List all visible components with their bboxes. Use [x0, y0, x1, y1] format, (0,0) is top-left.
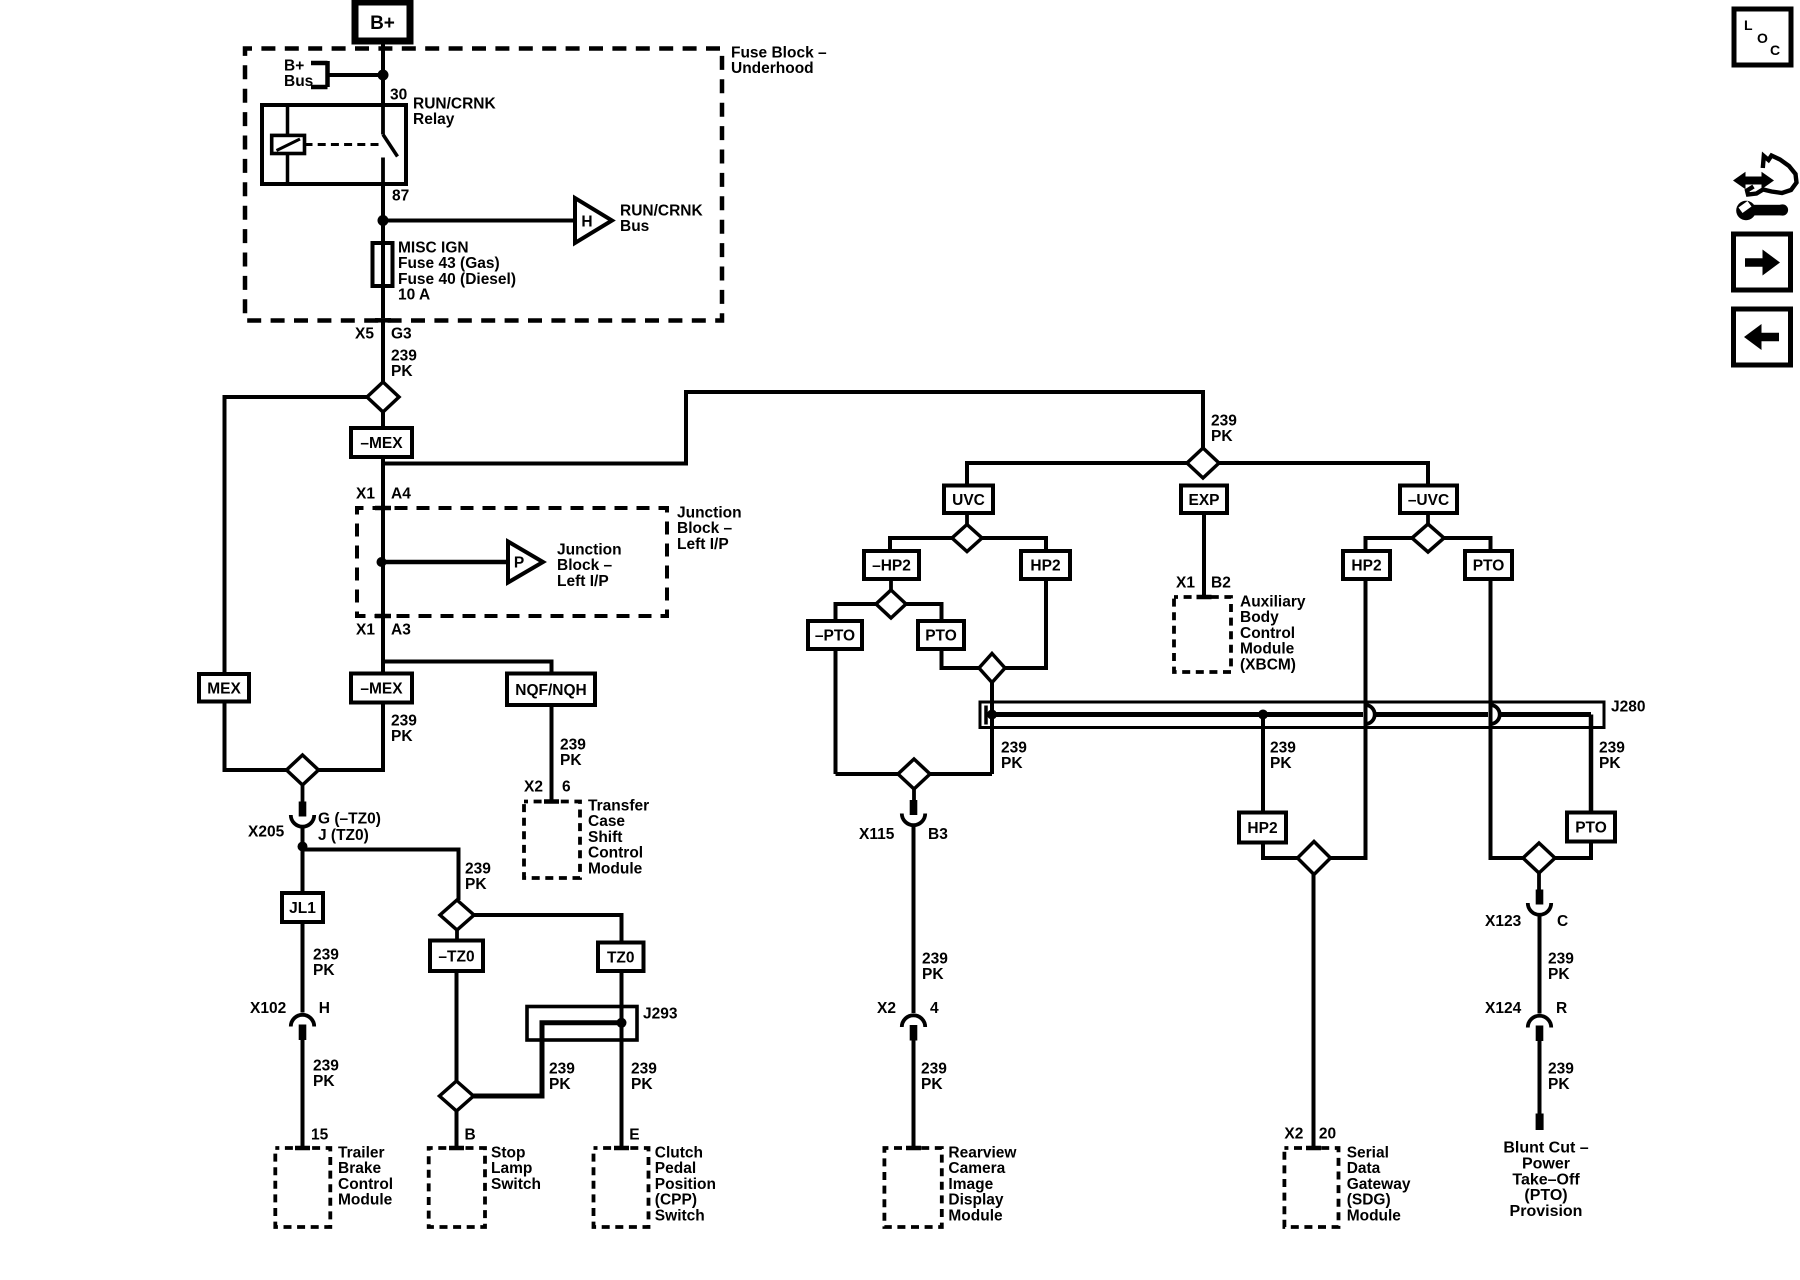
icon back arrow box	[1734, 309, 1791, 365]
wire UVC down	[965, 513, 969, 524]
net label -MEX (upper)	[351, 428, 412, 457]
splice diamond S7	[876, 590, 906, 618]
wire X205 to JL1	[301, 828, 305, 893]
inline connector X124	[1528, 1016, 1551, 1041]
wire -PTO down	[834, 649, 838, 774]
splice diamond S8	[979, 654, 1005, 683]
wire S3 right to TZ0	[474, 915, 622, 943]
net label NQF/NQH	[507, 674, 595, 706]
wire branch to NQF/NQH	[385, 662, 552, 674]
B+ Bus stub bracket	[311, 61, 328, 87]
splice diamond S9	[898, 759, 930, 789]
svg-text:C: C	[1770, 42, 1780, 58]
module Rearview Camera dashed box	[884, 1148, 941, 1227]
pin tick XBCM	[1197, 595, 1212, 600]
svg-text:30: 30	[390, 86, 407, 103]
svg-text:6: 6	[562, 778, 571, 795]
wire -MEX down through junction block	[381, 457, 385, 674]
inline connector X123	[1528, 890, 1551, 915]
junction pin 87 bus tap	[378, 215, 389, 226]
wire S10 right to PTO	[1444, 538, 1491, 551]
svg-text:R: R	[1556, 1000, 1567, 1017]
wire S5 right to -UVC	[1219, 463, 1428, 486]
svg-text:X102: X102	[250, 1000, 286, 1017]
svg-text:X2: X2	[1284, 1125, 1303, 1142]
net label -HP2	[864, 551, 919, 579]
pin tick trailer brake	[295, 1146, 310, 1151]
wire X2-4 to rearview module	[912, 1041, 916, 1147]
splice diamond S1	[367, 382, 399, 412]
wire HP2 lower to splice	[1263, 843, 1297, 859]
net label HP2 (mid)	[1021, 551, 1070, 579]
blunt cut end	[1536, 1114, 1544, 1131]
wire pin 87 to fuse	[381, 184, 385, 243]
connector X1 pin A3 tick	[375, 614, 391, 619]
bus tap triangle P	[508, 542, 543, 583]
fuse block underhood dashed box	[245, 49, 722, 321]
junction J280 HP2 tap	[1258, 710, 1268, 720]
wire HP2 down to splice	[1004, 579, 1046, 668]
pin tick SDG module	[1306, 1146, 1321, 1151]
svg-text:J280: J280	[1611, 698, 1645, 715]
svg-text:X1: X1	[356, 621, 375, 638]
bus bar J233	[474, 1023, 622, 1096]
wire X5-G3 to splice diamond	[381, 322, 385, 382]
svg-text:X123: X123	[1485, 913, 1522, 930]
wire -UVC down	[1426, 513, 1430, 524]
wire MEX down to diamond	[225, 702, 287, 771]
bus tap triangle H	[575, 198, 612, 243]
module CPP Switch dashed box	[594, 1148, 649, 1227]
splice diamond S5	[1187, 448, 1219, 478]
svg-text:–PTO: –PTO	[815, 628, 855, 645]
module SDG dashed box	[1284, 1148, 1338, 1227]
wire S4 to stop lamp switch	[455, 1111, 459, 1146]
svg-text:JL1: JL1	[289, 900, 316, 917]
pin tick stop lamp	[449, 1146, 464, 1151]
connector X5 crossing tick	[375, 318, 391, 323]
J280 bus bar left cap	[984, 706, 988, 725]
svg-text:–MEX: –MEX	[360, 681, 403, 698]
net label -MEX (lower)	[351, 674, 412, 703]
splice diamond S11	[1298, 842, 1331, 875]
splice diamond S12	[1523, 843, 1555, 873]
wire PTO down to splice	[942, 649, 981, 668]
net label EXP	[1181, 486, 1227, 514]
inline connector X2-4	[902, 1015, 925, 1040]
svg-text:L: L	[1744, 17, 1753, 33]
junction block dashed box	[357, 508, 667, 616]
module Stop Lamp Switch dashed box	[429, 1148, 485, 1227]
pin tick CPP switch	[614, 1146, 629, 1151]
svg-text:EXP: EXP	[1188, 492, 1219, 509]
wire branch to right riser	[383, 392, 1203, 464]
wire S6 left to -HP2	[890, 538, 952, 551]
wire S1 down to -MEX	[381, 412, 385, 428]
svg-text:Blunt Cut –PowerTake–Off(PTO)P: Blunt Cut –PowerTake–Off(PTO)Provision	[1503, 1140, 1588, 1220]
net label HP2 (upper right)	[1343, 551, 1390, 579]
relay coil	[272, 135, 305, 153]
svg-text:B2: B2	[1211, 574, 1231, 591]
wire rearview camera feed	[836, 772, 993, 776]
svg-text:A3: A3	[391, 621, 411, 638]
relay coil ground-side wire	[286, 154, 290, 185]
wire -TZ0 to stop lamp splice	[455, 971, 459, 1081]
wire branch to stop lamp splice	[303, 850, 459, 901]
relay switch blade	[383, 135, 398, 157]
pin tick rearview module	[906, 1146, 921, 1151]
wire B+ bus tap	[328, 73, 384, 77]
splice diamond S10	[1412, 524, 1444, 552]
relay coil feed wire	[286, 105, 290, 135]
module Transfer Case Shift Control dashed box	[524, 802, 580, 879]
wire S10 left to HP2	[1366, 538, 1413, 551]
icon box LOC	[1734, 9, 1791, 65]
svg-text:X2: X2	[877, 1000, 896, 1017]
wire S5 left to UVC	[967, 463, 1187, 486]
wire TZ0 through J233 to CPP switch	[620, 971, 624, 1146]
svg-text:X1: X1	[356, 485, 375, 502]
svg-text:–TZ0: –TZ0	[438, 948, 474, 965]
junction P bus tap	[377, 557, 387, 567]
svg-text:B: B	[465, 1126, 476, 1143]
battery terminal B+	[355, 2, 410, 41]
svg-text:MEX: MEX	[207, 680, 241, 697]
wire S7 right to PTO	[906, 604, 942, 621]
J280 bus hop at PTO wire	[1492, 705, 1500, 724]
svg-text:4: 4	[930, 1000, 939, 1017]
svg-text:B3: B3	[928, 826, 948, 843]
splice diamond S3	[440, 900, 474, 930]
svg-text:TZ0: TZ0	[607, 949, 635, 966]
fuse MISC IGN symbol	[373, 243, 393, 286]
wire PTO lower to splice	[1555, 842, 1591, 859]
wire EXP to XBCM	[1202, 513, 1206, 595]
net label PTO (lower)	[1567, 813, 1615, 842]
net label -UVC	[1400, 486, 1457, 514]
module XBCM dashed box	[1174, 597, 1231, 672]
splice pack J280 box	[980, 702, 1604, 728]
svg-text:J293: J293	[643, 1005, 678, 1022]
J280 bus hop at HP2 wire	[1367, 705, 1375, 724]
relay fixed contact pin 87 side	[381, 158, 385, 185]
net label MEX	[199, 674, 249, 702]
svg-text:O: O	[1757, 30, 1768, 46]
svg-text:X124: X124	[1485, 1000, 1522, 1017]
svg-text:HP2: HP2	[1351, 558, 1381, 575]
net label TZ0	[598, 943, 644, 972]
wire NQF/NQH to transfer case module	[550, 705, 554, 800]
svg-text:H: H	[319, 1000, 330, 1017]
wire X123 to X124	[1538, 916, 1542, 1014]
svg-text:C: C	[1557, 913, 1568, 930]
net label JL1	[282, 893, 323, 922]
wire -HP2 down	[889, 579, 893, 590]
wire S3 to -TZ0	[455, 930, 459, 941]
svg-text:–UVC: –UVC	[1408, 492, 1449, 509]
svg-text:Fuse Block –Underhood: Fuse Block –Underhood	[731, 44, 827, 77]
pin tick transfer case	[544, 799, 559, 804]
svg-text:15: 15	[311, 1126, 329, 1143]
splice pack J233 box	[527, 1007, 637, 1041]
icon forward arrow box	[1734, 234, 1791, 290]
svg-text:X115: X115	[859, 826, 895, 843]
wire PTO crossing J280	[1491, 579, 1524, 858]
net label -TZ0	[430, 941, 483, 972]
junction below X205	[298, 842, 308, 852]
net label -PTO	[808, 621, 862, 649]
svg-text:G3: G3	[391, 325, 412, 342]
svg-text:B+: B+	[370, 13, 395, 34]
svg-text:20: 20	[1319, 1125, 1336, 1142]
wire S9 to connector X115	[912, 789, 916, 800]
svg-text:HP2: HP2	[1247, 820, 1277, 837]
J280 bus bar	[987, 712, 1591, 717]
relay common wire pin 30 side	[381, 105, 385, 135]
svg-text:X5: X5	[355, 325, 374, 342]
inline connector X102	[291, 1015, 314, 1040]
relay dashed actuation link	[305, 143, 380, 146]
wire HP2 crossing J280	[1330, 579, 1366, 858]
svg-text:H: H	[581, 214, 592, 231]
wire through fuse	[381, 243, 385, 318]
wire X115 to X2-4	[912, 827, 916, 1014]
wire to RUN/CRNK bus triangle	[383, 219, 573, 223]
wire J280 to PTO lower	[1589, 715, 1594, 813]
svg-text:PTO: PTO	[1575, 820, 1607, 837]
svg-text:X1: X1	[1176, 574, 1195, 591]
wire S12 to connector X123	[1537, 873, 1541, 890]
svg-text:P: P	[514, 555, 524, 572]
wire S8 into J280 bus	[990, 683, 994, 775]
splice diamond S2	[287, 755, 319, 785]
svg-text:X205: X205	[248, 823, 285, 840]
wire to P bus triangle	[382, 560, 509, 565]
junction on J233 bus	[617, 1018, 627, 1028]
svg-text:PTO: PTO	[925, 628, 957, 645]
wire S11 to SDG module	[1312, 875, 1316, 1147]
wire X124 to blunt cut	[1538, 1041, 1542, 1114]
icon adjustable component	[1733, 156, 1797, 221]
splice diamond S4	[440, 1081, 474, 1111]
connector X1 pin A4 tick	[375, 506, 391, 511]
net label PTO (mid)	[918, 621, 964, 649]
svg-text:X2: X2	[524, 778, 543, 795]
junction J280 left tap	[987, 710, 997, 720]
module Trailer Brake Control dashed box	[275, 1148, 330, 1227]
wire -MEX lower down	[319, 703, 384, 771]
relay RUN/CRNK box	[262, 105, 406, 184]
inline connector X205	[291, 802, 314, 827]
svg-text:–MEX: –MEX	[360, 435, 403, 452]
wire S7 left to -PTO	[836, 604, 877, 621]
svg-text:A4: A4	[391, 485, 411, 502]
inline connector X115	[902, 800, 925, 825]
net label PTO (upper right)	[1465, 551, 1512, 579]
wire B+ terminal to relay pin 30	[381, 41, 385, 105]
svg-text:E: E	[629, 1126, 639, 1143]
wire S1 left branch	[225, 397, 368, 674]
wire J280 tap to HP2 lower	[1261, 715, 1265, 813]
svg-text:PTO: PTO	[1473, 558, 1505, 575]
svg-text:87: 87	[392, 187, 409, 204]
splice diamond S6	[952, 525, 982, 552]
net label HP2 (lower)	[1239, 813, 1286, 843]
svg-text:NQF/NQH: NQF/NQH	[515, 682, 586, 699]
svg-text:–HP2: –HP2	[872, 558, 911, 575]
svg-text:HP2: HP2	[1030, 558, 1060, 575]
net label UVC	[944, 486, 993, 514]
wire S2 to connector X205	[301, 785, 305, 802]
svg-text:UVC: UVC	[952, 492, 985, 509]
wire S6 right to HP2	[982, 538, 1046, 551]
wire JL1 to X102	[301, 922, 305, 1013]
wire X102 to trailer brake module	[301, 1040, 305, 1146]
junction B+ bus	[378, 70, 389, 81]
